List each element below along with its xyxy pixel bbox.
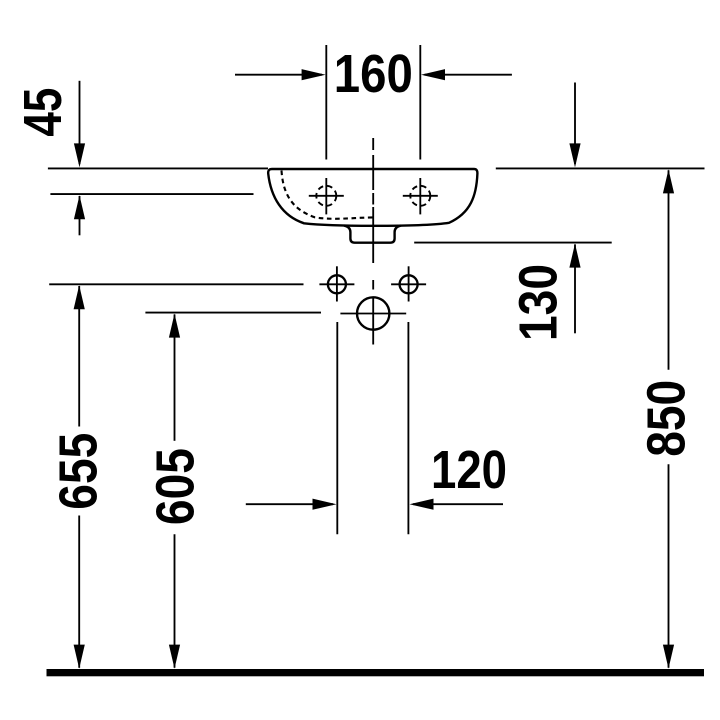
tap hole right circle: [410, 186, 430, 206]
mounting hole left circle: [328, 275, 346, 293]
dim 605 arrow up: [169, 314, 180, 338]
dim 850 arrow down: [663, 645, 674, 669]
mounting hole right circle: [400, 275, 418, 293]
svg-text:655: 655: [49, 433, 109, 510]
reference line 605 level: [145, 312, 321, 314]
svg-text:120: 120: [431, 440, 507, 500]
dim 130 arrow up: [569, 244, 580, 268]
svg-text:45: 45: [13, 88, 73, 137]
dim 45 line upper: [79, 81, 81, 164]
dim 160 extension right: [419, 45, 421, 160]
dim 130 arrow down: [569, 143, 580, 167]
dim 45 arrow up: [74, 195, 85, 219]
dim 655 arrow down: [74, 645, 85, 669]
dim 160 arrow right: [425, 74, 512, 76]
reference line rim right: [496, 167, 705, 169]
dim 45 arrow down: [74, 143, 85, 167]
mounting hole left cross: [319, 283, 354, 285]
reference line 130 level: [414, 242, 612, 244]
dim 120 extension left: [336, 322, 338, 534]
dim 655 arrow up: [74, 285, 85, 309]
dim 160 extension left: [325, 45, 327, 160]
reference line 45 lower: [50, 193, 253, 195]
dim 130 line lower: [574, 244, 576, 333]
basin outline: [268, 169, 477, 226]
tap hole left cross: [309, 195, 344, 197]
tap hole right cross: [403, 195, 438, 197]
dim 120 arrow left: [246, 503, 333, 505]
dim 120 arrow right: [413, 503, 503, 505]
floor line: [47, 669, 705, 676]
dim 120 extension right: [407, 322, 409, 534]
dim 655 line upper: [78, 286, 80, 427]
dim 655 line lower: [78, 516, 80, 668]
dim 605 arrow down: [169, 645, 180, 669]
svg-text:130: 130: [509, 264, 569, 341]
reference line 655 level: [49, 283, 303, 285]
svg-text:160: 160: [334, 44, 413, 104]
svg-text:850: 850: [637, 380, 697, 457]
dim 45 line lower: [79, 196, 81, 235]
drain pipe cross: [340, 313, 406, 315]
drain pipe circle: [357, 297, 389, 329]
drain box: [344, 226, 401, 243]
svg-text:605: 605: [146, 448, 206, 525]
reference line rim left: [48, 167, 268, 169]
dim 850 line upper: [668, 170, 670, 370]
dim 605 line upper: [174, 314, 176, 440]
dim 850 line lower: [668, 464, 670, 668]
mounting hole right cross: [391, 283, 426, 285]
dim 850 arrow up: [663, 169, 674, 193]
tap hole left circle: [316, 186, 336, 206]
dim 605 line lower: [174, 534, 176, 668]
dim 160 arrow left: [235, 74, 322, 76]
centerline lower dash: [372, 280, 374, 290]
centerline: [372, 138, 374, 263]
dim 130 line upper: [574, 83, 576, 165]
basin inner contour dashed: [282, 171, 376, 219]
